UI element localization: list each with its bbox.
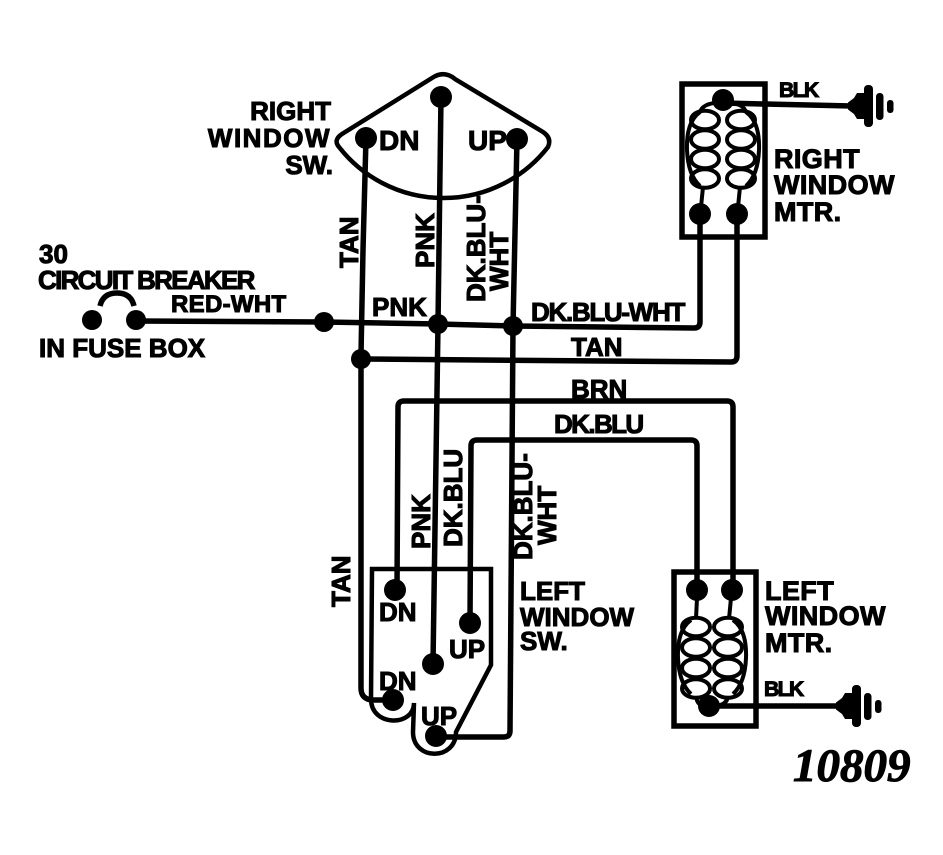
svg-text:BLK: BLK (779, 79, 819, 102)
wire PNK feed (junction A to PNK junction B) (324, 322, 438, 324)
right motor terminal dot (bottom left) (689, 203, 711, 225)
left switch terminal dot (center, PNK) (422, 653, 444, 675)
wire PNK vertical (right switch top through junction B to left switch center) (433, 97, 441, 664)
left motor coil right column (714, 618, 746, 698)
svg-text:WHT: WHT (532, 486, 562, 545)
svg-text:WINDOW: WINDOW (208, 123, 331, 153)
svg-text:TAN: TAN (571, 332, 623, 362)
left motor terminal dot (bottom, BLK) (698, 695, 720, 717)
svg-text:DK.BLU-WHT: DK.BLU-WHT (531, 297, 685, 327)
left window switch body (371, 569, 491, 754)
circuit breaker CB: right terminal dot (126, 310, 146, 330)
node B junction dot (PNK vertical meets feed) (428, 314, 448, 334)
svg-text:UP: UP (468, 125, 507, 156)
svg-text:RIGHT: RIGHT (250, 96, 331, 126)
svg-text:IN FUSE BOX: IN FUSE BOX (39, 333, 206, 363)
svg-text:TAN: TAN (326, 555, 356, 607)
left motor coil top stubs (696, 598, 731, 619)
svg-text:TAN: TAN (334, 216, 364, 268)
svg-text:WHT: WHT (484, 232, 514, 291)
right switch terminal dot DN (355, 127, 377, 149)
right motor coil left column (687, 111, 719, 188)
wire DK.BLU (left switch mid UP up, right, down to left motor) (470, 440, 697, 623)
svg-text:UP: UP (449, 634, 485, 664)
left window motor body (674, 572, 756, 726)
svg-text:WINDOW: WINDOW (765, 601, 886, 631)
right switch terminal dot (top / PNK) (430, 86, 452, 108)
svg-text:BLK: BLK (764, 678, 804, 701)
wire TAN branch (junction D right then up to right motor) (361, 214, 737, 362)
svg-text:DN: DN (379, 666, 417, 696)
circuit breaker CB (30A in fuse box): left terminal dot (82, 310, 102, 330)
right switch terminal dot UP (506, 128, 528, 150)
wire DK.BLU-WHT vertical (right switch UP through junction C down to left switch lower UP) (436, 139, 517, 737)
right motor terminal dot (top, BLK) (712, 89, 734, 111)
node C junction dot (DK.BLU-WHT vertical meets feed) (503, 316, 523, 336)
wire DK.BLU-WHT (junction C right then up to right motor) (513, 214, 700, 328)
right motor coil top connectors (700, 102, 746, 113)
svg-text:DK.BLU: DK.BLU (554, 409, 643, 439)
wire BRN (left switch upper DN up, right, down to left motor) (397, 401, 733, 590)
wire BLK (right motor to ground) (723, 103, 852, 106)
wire BLK (left motor to ground) (709, 703, 840, 709)
right window switch body (lens shape) (337, 74, 550, 198)
svg-text:WINDOW: WINDOW (774, 170, 895, 200)
left motor terminal dot (top right) (721, 579, 743, 601)
circuit breaker CB: arc element (100, 293, 134, 306)
right motor coil right column (727, 111, 759, 188)
ground G1 (right) (848, 85, 894, 127)
svg-text:BRN: BRN (571, 374, 627, 404)
svg-text:UP: UP (421, 701, 457, 731)
svg-text:SW.: SW. (520, 626, 568, 656)
svg-text:DK.BLU: DK.BLU (438, 449, 468, 547)
svg-text:10809: 10809 (793, 740, 911, 792)
left switch terminal dot UP (mid) (459, 612, 481, 634)
svg-text:PNK: PNK (372, 292, 427, 322)
svg-text:MTR.: MTR. (774, 197, 842, 227)
svg-text:SW.: SW. (285, 150, 333, 180)
ground G2 (left) (836, 685, 882, 727)
node D junction dot (TAN branch) (351, 349, 371, 369)
node A junction dot on feed wire (314, 312, 334, 332)
left motor coil bottom connectors (696, 696, 728, 706)
right window motor body (682, 84, 765, 237)
svg-text:MTR.: MTR. (765, 628, 833, 658)
wire TAN vertical (right switch DN down to left switch lower DN) (361, 138, 393, 700)
right motor coil bottom stubs (701, 187, 740, 207)
left switch terminal dot UP (lower) (425, 725, 447, 747)
wire feed (junction B to DK.BLU-WHT junction C) (438, 324, 513, 326)
svg-text:DN: DN (379, 125, 419, 156)
left switch terminal dot DN (lower) (382, 689, 404, 711)
svg-text:PNK: PNK (410, 213, 440, 268)
left motor terminal dot (top left) (686, 579, 708, 601)
wire RED-WHT (breaker to junction A) (136, 321, 324, 322)
svg-text:PNK: PNK (406, 494, 436, 549)
right motor terminal dot (bottom right) (726, 203, 748, 225)
left switch terminal dot DN (upper) (384, 579, 406, 601)
left motor coil left column (678, 618, 710, 698)
svg-text:RED-WHT: RED-WHT (171, 291, 286, 318)
svg-text:DN: DN (379, 597, 417, 627)
